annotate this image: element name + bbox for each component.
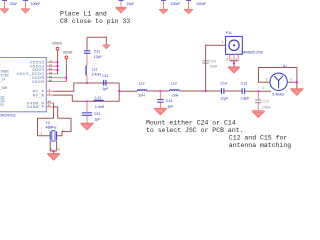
svg-text:to select JSC or PCB ant.: to select JSC or PCB ant.: [146, 127, 244, 134]
wire antenna pins 2-3 loop: [259, 68, 297, 89]
svg-text:L13: L13: [171, 82, 177, 86]
inductor L11 2.4nH: [86, 66, 102, 77]
junction dot antenna pin 3: [296, 81, 298, 83]
capacitor top-left 22uF: [2, 0, 17, 8]
pin stubs VDDS2 13 / VDDS3 22 / VDDS 44 / VDDS_DCDC 34 / VDDR 45 / VDDR 48: [46, 62, 53, 81]
svg-text:2.4nH: 2.4nH: [95, 105, 105, 109]
svg-text:2.4GHz: 2.4GHz: [272, 93, 284, 97]
capacitor C15 DNM: [255, 91, 270, 111]
ground: [184, 9, 193, 13]
power symbol VDDS: [52, 42, 62, 51]
pin X48M_N 46 / X48M_P 47: [46, 103, 53, 107]
svg-text:1pF: 1pF: [102, 87, 108, 91]
svg-text:_SW: _SW: [0, 86, 7, 90]
wire L12 to C13 node: [147, 90, 170, 92]
wire X48M_P to crystal pin 3: [54, 107, 72, 136]
svg-text:DNM: DNM: [210, 65, 218, 69]
svg-text:1pF: 1pF: [167, 105, 173, 109]
wire L13 to C14: [179, 90, 221, 92]
junction dot P11 branch: [205, 90, 207, 92]
note: Mount either C24 or C14 to select JSC or PCB ant.: [146, 119, 244, 134]
wire C14 to C12: [224, 90, 242, 92]
svg-text:C14: C14: [221, 82, 227, 86]
svg-text:C31: C31: [94, 49, 100, 53]
capacitor C13 1pF: [157, 91, 173, 109]
svg-text:0R2FRGZ: 0R2FRGZ: [0, 113, 17, 117]
svg-text:2nH: 2nH: [172, 94, 179, 98]
inductor L12 2nH: [137, 82, 147, 98]
capacitor 100nF (top right of group): [186, 0, 206, 9]
junction dot crystal case: [53, 150, 55, 152]
svg-text:100nF: 100nF: [196, 2, 206, 6]
crystal Y2 48MHz: [41, 121, 64, 141]
connector P11 MM5829-2700: [222, 31, 263, 54]
junction dot C15 node: [257, 90, 259, 92]
ground: [47, 154, 60, 160]
capacitor C24 DNM: [202, 60, 217, 69]
svg-text:100nF: 100nF: [171, 2, 181, 6]
svg-text:13: 13: [49, 59, 53, 63]
svg-text:C24: C24: [210, 60, 216, 64]
svg-text:Y2: Y2: [46, 121, 50, 125]
capacitor C21 1pF: [82, 101, 101, 123]
svg-text:Place L1 and: Place L1 and: [60, 10, 107, 17]
svg-text:48: 48: [49, 79, 53, 83]
capacitor 100nF (top middle right): [161, 0, 180, 9]
pin RF_P 1 / RF_N 2: [46, 91, 53, 95]
IC U1 CC2640R2F: [0, 58, 46, 118]
ground: [228, 67, 240, 73]
svg-text:C12: C12: [241, 82, 247, 86]
svg-text:VDDR: VDDR: [63, 51, 73, 55]
capacitor C11 1pF: [102, 74, 108, 91]
junction dot P11 gnd: [233, 63, 235, 65]
svg-text:Mount either C24 or C14: Mount either C24 or C14: [146, 119, 236, 126]
ground: [290, 89, 303, 95]
wire VDDR rail: [53, 59, 66, 82]
wire X48M_N to crystal pin 1: [38, 103, 54, 136]
svg-text:VDDS2: VDDS2: [30, 61, 45, 65]
wire RF_P to balun top line: [53, 83, 119, 91]
svg-text:P11: P11: [226, 31, 232, 35]
svg-text:1pF: 1pF: [94, 118, 100, 122]
svg-text:VDDS: VDDS: [32, 68, 45, 72]
svg-text:48MHz: 48MHz: [46, 126, 57, 130]
note: C12 and C15 for antenna matching: [229, 134, 292, 149]
svg-text:L11: L11: [92, 67, 98, 71]
power symbol VDDR: [63, 51, 73, 59]
svg-text:C12 and C15 for: C12 and C15 for: [229, 134, 288, 141]
note: Place L1 and C8 close to pin 33: [60, 10, 130, 25]
svg-text:RF_P: RF_P: [33, 90, 45, 94]
antenna A1 2.4GHz: [262, 64, 287, 96]
svg-text:VDDS: VDDS: [52, 42, 62, 46]
svg-text:TCKC: TCKC: [1, 74, 10, 78]
ground: [159, 9, 168, 13]
junction dot C13 node: [160, 90, 162, 92]
svg-text:MM5829-2700: MM5829-2700: [243, 50, 264, 54]
svg-text:L12: L12: [139, 82, 145, 86]
svg-text:C8 close to pin 33: C8 close to pin 33: [60, 18, 130, 25]
ground: [21, 9, 30, 13]
svg-text:VDDR: VDDR: [32, 80, 45, 84]
wire C12 to antenna: [245, 90, 271, 92]
wire C31 to ground: [87, 37, 106, 44]
wire VDDS rail: [53, 50, 58, 74]
svg-text:2.4nH: 2.4nH: [92, 73, 102, 77]
svg-text:C21: C21: [94, 112, 100, 116]
crystal case pins 2 4 to ground: [50, 141, 60, 154]
junction dots VDDS/VDDR rails: [57, 61, 68, 78]
svg-text:100nF: 100nF: [31, 2, 41, 6]
svg-text:46: 46: [48, 100, 52, 104]
junction dot output: [118, 90, 120, 92]
svg-text:C15: C15: [262, 100, 268, 104]
ground: [81, 123, 94, 129]
inductor L21 2.4nH: [94, 96, 105, 109]
svg-text:Q1: Q1: [1, 95, 5, 99]
capacitor 22uF (top middle): [119, 0, 135, 7]
svg-text:X48M_N: X48M_N: [27, 101, 45, 105]
P11 ground pins 5 2 3: [227, 54, 239, 67]
junction dot C21/bottom line: [86, 100, 88, 102]
wire L11 to RF_P line: [86, 75, 88, 83]
svg-text:PL: PL: [0, 103, 4, 107]
wire RF_N to balun bottom line: [53, 95, 119, 101]
svg-text:12pF: 12pF: [220, 96, 228, 100]
svg-text:X48M_P: X48M_P: [27, 105, 45, 109]
ground: [115, 7, 126, 12]
svg-text:antenna matching: antenna matching: [229, 142, 292, 149]
ground: [154, 109, 167, 115]
junction dot L11/top line: [86, 82, 88, 84]
capacitor C12 1.8pF: [240, 82, 249, 101]
svg-text:C11: C11: [102, 74, 108, 78]
svg-text:45: 45: [49, 75, 53, 79]
svg-text:12pF: 12pF: [94, 55, 102, 59]
svg-text:47: 47: [48, 104, 52, 108]
svg-text:C13: C13: [166, 99, 172, 103]
svg-text:DNM: DNM: [262, 106, 270, 110]
ground: [252, 111, 265, 117]
svg-text:1.8pF: 1.8pF: [240, 96, 249, 100]
svg-text:_N: _N: [0, 77, 5, 81]
svg-text:RF_N: RF_N: [33, 93, 45, 97]
capacitor C31 12pF: [84, 37, 102, 66]
svg-text:TMSC: TMSC: [0, 70, 10, 74]
capacitor 100nF (second top-left): [23, 0, 40, 8]
capacitor C14 12pF: [220, 82, 228, 101]
svg-text:VDDR: VDDR: [32, 76, 45, 80]
svg-text:L21: L21: [95, 96, 101, 100]
svg-text:22uF: 22uF: [127, 2, 135, 6]
inductor L13 2nH: [170, 82, 180, 98]
svg-text:22uF: 22uF: [10, 2, 18, 6]
svg-text:44: 44: [49, 67, 53, 71]
ground: [102, 45, 110, 49]
ground: [0, 9, 9, 13]
svg-text:2nH: 2nH: [138, 94, 145, 98]
wire P11 branch with C24: [206, 45, 226, 91]
wire balun output node: [119, 83, 137, 101]
